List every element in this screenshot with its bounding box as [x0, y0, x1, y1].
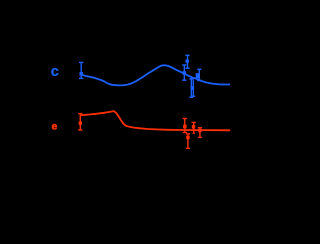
red errorbar R1 (x=79.9) [78, 114, 82, 130]
blue errorbar B1 (x=81) [79, 62, 83, 78]
red errorbar R6 (x=198.6) [198, 128, 202, 138]
blue errorbar B4b (x=193.3, lower) [191, 79, 196, 96]
svg-text:c: c [51, 64, 59, 80]
red fit curve [80, 111, 230, 130]
blue errorbar B4a (x=191.3, lower) [189, 79, 193, 98]
red errorbar R4 (x=193.4) [192, 122, 196, 133]
blue fit curve [81, 65, 230, 85]
red errorbar R2 (x=184.8) [183, 119, 187, 133]
svg-text:e: e [52, 122, 58, 133]
blue errorbar B3 (x=187.5, tall upper) [185, 55, 189, 68]
blue errorbar B2 (x=184.3) [182, 65, 186, 80]
red errorbar R3 (x=187.9, lower) [186, 134, 190, 149]
blue errorbar B6 (x=199.3) [197, 69, 201, 80]
blue errorbar B5 (x=197.4, small) [196, 74, 200, 78]
